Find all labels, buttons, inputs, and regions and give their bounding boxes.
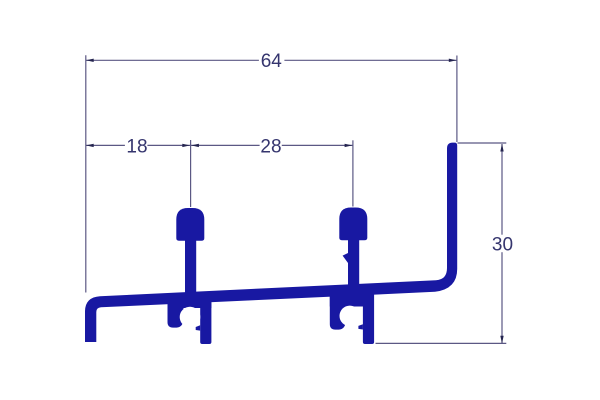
dimension line 28 right segment <box>282 144 353 146</box>
arrow 18 left <box>86 144 94 147</box>
dimension line 18 right segment <box>147 144 190 146</box>
clip K2 tooth <box>358 324 363 329</box>
clip K1 tooth <box>196 325 201 330</box>
extension line top-right horizontal <box>458 142 507 144</box>
extension line bottom horizontal <box>376 342 507 344</box>
arrow 64 right <box>449 59 457 62</box>
dimension line 28 left segment <box>191 144 260 146</box>
clip K1 circular cutout <box>180 307 201 328</box>
extension line right flange (x=456.9) <box>456 56 458 143</box>
stud S2 barb <box>343 253 348 263</box>
stud S1 stem <box>185 236 196 296</box>
extension line stud2 (x=352.9) <box>352 140 354 206</box>
arrow 28 left <box>191 144 199 147</box>
extension line left (x=85.8) <box>85 55 87 292</box>
arrow 28 right <box>345 144 353 147</box>
profile: left leg + sloped web + right flange <box>85 143 457 342</box>
clip K2 jaw <box>330 296 346 330</box>
svg-text:64: 64 <box>261 51 283 72</box>
svg-text:28: 28 <box>260 136 281 157</box>
dimension line 64 left segment <box>86 59 259 61</box>
clip K2 foot bar <box>363 292 374 344</box>
arrow 64 left <box>86 59 94 62</box>
svg-text:30: 30 <box>492 235 513 256</box>
stud S2 stem <box>348 236 359 288</box>
clip K2 circular cutout <box>340 306 361 327</box>
stud S1 dome <box>176 208 204 241</box>
stud S2 dome <box>339 208 367 241</box>
svg-text:18: 18 <box>126 136 147 157</box>
arrow 18 right <box>182 144 190 147</box>
dimension line 18 left segment <box>86 144 125 146</box>
clip K2 top connector <box>330 290 374 307</box>
dimension and extension lines <box>86 55 507 343</box>
clip K1 jaw <box>168 298 184 328</box>
extension line stud1 (x=190.6) <box>190 140 192 207</box>
arrow 30 bottom <box>500 336 503 344</box>
clip K1 top connector <box>168 294 212 308</box>
arrow 30 top <box>500 144 503 152</box>
dimension line 30 top segment <box>501 144 503 235</box>
clip K1 foot bar <box>200 296 211 344</box>
dimension line 30 bottom segment <box>501 252 503 343</box>
dimension line 64 right segment <box>284 59 456 61</box>
